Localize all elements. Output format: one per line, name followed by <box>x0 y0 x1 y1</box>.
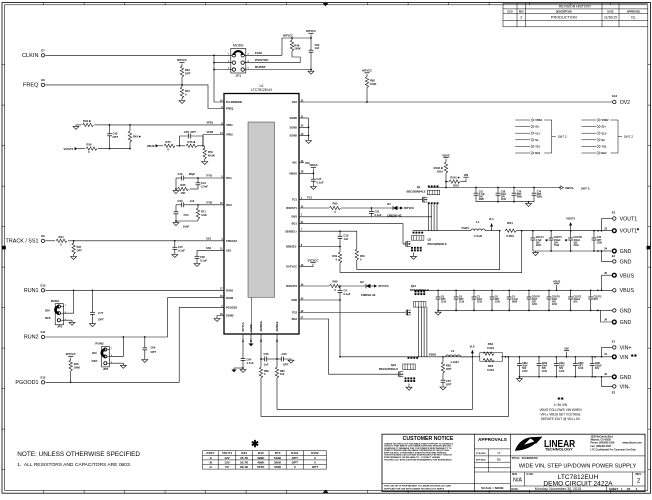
capacitor C44 <box>196 178 209 189</box>
svg-text:VSW1: VSW1 <box>462 226 470 230</box>
svg-text:INTVCC: INTVCC <box>404 206 414 210</box>
ground below JP2 <box>110 363 126 368</box>
address block text <box>591 435 643 451</box>
svg-text:0: 0 <box>167 147 169 151</box>
resistor R80 <box>259 367 269 378</box>
svg-text:357K: 357K <box>257 465 265 469</box>
ground below C54 <box>173 220 189 228</box>
wire VIN cap ground rail <box>519 376 595 378</box>
wire Q21 drain to VBUS rail <box>414 289 438 291</box>
resistor R101 2010 <box>446 175 466 187</box>
net label PS/SYNC wire <box>244 58 300 63</box>
svg-text:VBUS: VBUS <box>620 273 635 279</box>
capacitor COUT2 <box>588 290 602 310</box>
svg-text:0.003: 0.003 <box>506 234 514 238</box>
capacitor C38 <box>496 188 507 202</box>
svg-text:4.7uF: 4.7uF <box>479 193 486 196</box>
svg-text:R75: R75 <box>166 140 171 144</box>
svg-text:NOTE: UNLESS OTHERWISE SPECIFI: NOTE: UNLESS OTHERWISE SPECIFIED <box>17 451 140 458</box>
ground below C77 <box>90 324 96 327</box>
svg-text:PGND: PGND <box>250 324 253 331</box>
wire exposed pad to PGND <box>250 297 252 333</box>
svg-text:ASSY: ASSY <box>206 451 215 455</box>
svg-text:0: 0 <box>334 210 336 214</box>
wire TG2 to Q21 gate <box>299 312 405 314</box>
svg-text:PGOOD1: PGOOD1 <box>226 306 238 310</box>
svg-text:SS2: SS2 <box>226 249 231 253</box>
ground below Q2 <box>411 253 417 260</box>
svg-text:PLLIN/MODE: PLLIN/MODE <box>226 100 242 104</box>
svg-text:E3: E3 <box>612 211 616 215</box>
terminal E11 RUN2 <box>24 330 46 341</box>
svg-text:C77: C77 <box>98 311 103 315</box>
svg-text:R95: R95 <box>333 202 338 206</box>
svg-text:VFB1: VFB1 <box>226 123 233 127</box>
svg-text:LTC7812EUH: LTC7812EUH <box>251 88 272 92</box>
svg-text:2.2nF: 2.2nF <box>201 185 208 189</box>
svg-text:1210: 1210 <box>501 199 507 201</box>
svg-text:C52: C52 <box>200 255 205 259</box>
capacitor C77 OPT <box>90 290 104 323</box>
net flag VL1- <box>489 217 495 231</box>
svg-text:J6: J6 <box>604 317 608 321</box>
net flag VOUT1 left <box>63 147 77 151</box>
svg-text:RUN1: RUN1 <box>24 288 39 294</box>
svg-text:VOUT1: VOUT1 <box>63 147 73 151</box>
terminal J1 VIN <box>604 352 638 361</box>
svg-text:TITLE: SCHEMATIC: TITLE: SCHEMATIC <box>512 456 538 460</box>
svg-text:SHEET: SHEET <box>609 487 619 491</box>
ground below C17 <box>310 187 316 190</box>
svg-text:1206: 1206 <box>597 242 603 244</box>
svg-text:SHT 2: SHT 2 <box>624 135 633 139</box>
node VBUS rail junctions <box>445 187 535 189</box>
node PGOOD1 junction <box>70 381 72 383</box>
capacitor C52 <box>195 255 208 264</box>
svg-text:SENSE2-: SENSE2- <box>276 321 279 332</box>
svg-text:C63: C63 <box>282 352 287 356</box>
capacitor C4 <box>338 286 351 300</box>
svg-text:S1+: S1+ <box>535 126 540 129</box>
svg-text:OPT: OPT <box>185 72 191 76</box>
capacitor COUT1 <box>568 290 582 310</box>
svg-text:15K: 15K <box>181 191 186 195</box>
wire GND terminals branch <box>597 250 612 261</box>
sheet connector group VSW1..BG1 <box>515 119 567 156</box>
wire INTVCC pin stub <box>242 334 244 359</box>
terminal E3 VOUT1 <box>612 211 638 223</box>
svg-text:R43 ✱: R43 ✱ <box>133 134 142 138</box>
border center marker top <box>323 3 329 7</box>
svg-text:VSW1: VSW1 <box>535 119 543 122</box>
node C21 junction <box>371 207 373 209</box>
svg-text:68.1K: 68.1K <box>240 465 249 469</box>
svg-text:0: 0 <box>294 465 296 469</box>
capacitor C21 <box>369 208 382 217</box>
svg-text:TG2: TG2 <box>602 146 607 149</box>
wire ITH2 to U1 <box>198 201 224 205</box>
wire VBUS cap ground rail <box>476 201 534 203</box>
svg-text:VFB2: VFB2 <box>206 130 213 134</box>
svg-text:TRK/SS1: TRK/SS1 <box>226 239 238 243</box>
border zone ticks top <box>44 3 611 5</box>
ground below R72 <box>179 101 185 104</box>
terminal J6 GND <box>604 317 632 326</box>
svg-text:1. ALL RESISTORS AND CAPACITO: 1. ALL RESISTORS AND CAPACITORS ARE 0603… <box>17 462 131 468</box>
svg-text:-A: -A <box>209 456 213 460</box>
ground below C57 <box>440 387 446 390</box>
svg-text:www.linear.com: www.linear.com <box>623 441 643 445</box>
ground below R37 <box>71 257 77 260</box>
wire VFB1 to U1 <box>110 121 225 125</box>
terminal E5 VBUS <box>613 288 635 294</box>
sheet connector group VSW2..BG2 <box>582 119 634 156</box>
node R75 R76 junctions <box>179 145 204 147</box>
capacitor CIN2 <box>517 357 528 377</box>
wire FCM to INTVCC rail <box>282 38 311 55</box>
wire VOUT1 terminals branch <box>601 219 613 232</box>
svg-text:DL: DL <box>631 15 635 19</box>
svg-text:E2: E2 <box>612 391 616 395</box>
svg-text:SGND: SGND <box>289 134 297 138</box>
svg-text:50V: 50V <box>573 302 578 304</box>
ground solid at PGND <box>248 344 253 347</box>
svg-text:VBUS: VBUS <box>620 288 635 294</box>
wire SW1 rail <box>413 230 471 232</box>
terminal J3 VOUT1 <box>604 226 641 234</box>
svg-text:VL2-: VL2- <box>470 344 476 348</box>
node RUN2 junctions <box>122 336 145 338</box>
approvals box text <box>476 437 507 490</box>
wire L1 to RS1 <box>485 230 500 232</box>
svg-text:BG2: BG2 <box>602 152 608 155</box>
ground right of C63 <box>288 360 294 363</box>
svg-text:TECHNOLOGY: TECHNOLOGY <box>545 448 574 452</box>
svg-text:E4: E4 <box>612 254 616 258</box>
svg-text:R40: R40 <box>360 254 365 258</box>
svg-text:OFF: OFF <box>92 359 98 363</box>
terminal E1 VIN+ <box>612 340 632 352</box>
resistor R34 <box>45 235 73 247</box>
svg-text:0: 0 <box>60 242 62 246</box>
svg-text:WIDE VIN, STEP UP/DOWN POWER S: WIDE VIN, STEP UP/DOWN POWER SUPPLY <box>519 463 637 469</box>
capacitor COUT4 <box>531 231 545 251</box>
resistor RS3 0.004 <box>483 359 494 372</box>
svg-text:R71: R71 <box>201 210 206 214</box>
svg-text:DATE:: DATE: <box>512 488 519 491</box>
svg-text:100: 100 <box>280 372 285 376</box>
capacitor COUT11 <box>565 231 584 251</box>
svg-text:COUT4: COUT4 <box>536 236 545 239</box>
wire SW2 from U1 <box>299 300 340 357</box>
wire Q21 SW trace <box>419 307 427 357</box>
wire VBUS rail 2 <box>438 289 612 291</box>
svg-text:RUN2: RUN2 <box>24 335 39 341</box>
wire ITH1 to U1 <box>198 174 224 178</box>
capacitor CIN4 <box>554 357 565 377</box>
svg-text:VIN: VIN <box>620 355 629 361</box>
ground below VBUS caps 2 <box>435 310 441 316</box>
svg-text:JP1: JP1 <box>57 325 63 329</box>
node OV2 R92 junction <box>366 101 368 103</box>
svg-text:GND: GND <box>620 249 632 255</box>
transistor Q21 BSC027N04LS <box>406 284 429 316</box>
wire JP3 common to PLLIN/MODE pin <box>214 55 224 102</box>
terminal E12 PGOOD1 <box>15 375 45 386</box>
svg-text:2010: 2010 <box>453 184 459 188</box>
svg-text:EXTVCC: EXTVCC <box>286 265 297 269</box>
node VIN rail junctions <box>519 356 596 358</box>
resistor R96 <box>299 280 366 292</box>
capacitor C55 OPT <box>179 130 203 146</box>
node RUN1 junctions <box>73 289 94 291</box>
svg-text:499K: 499K <box>257 456 265 460</box>
node VBUS rail 2 junctions <box>437 289 599 291</box>
svg-text:E10: E10 <box>41 283 46 287</box>
resistor R33 <box>76 119 110 127</box>
svg-text:1nF: 1nF <box>315 46 320 50</box>
svg-text:J4: J4 <box>604 247 608 251</box>
wire PGOOD1 to U1 <box>45 308 224 383</box>
resistor RS2 0.004 <box>480 342 503 361</box>
svg-text:R37: R37 <box>77 245 82 249</box>
svg-text:BOOST1: BOOST1 <box>286 206 297 210</box>
svg-text:E8: E8 <box>41 78 45 82</box>
svg-text:BOOST2: BOOST2 <box>286 284 297 288</box>
svg-text:TG1: TG1 <box>307 195 313 199</box>
node SS1 junctions <box>73 240 176 242</box>
svg-text:✱: ✱ <box>565 238 569 242</box>
terminal E6 GND <box>613 308 632 314</box>
svg-text:1210: 1210 <box>559 371 565 373</box>
svg-text:THIS CIRCUIT IS PROPRIETARY TO: THIS CIRCUIT IS PROPRIETARY TO LINEAR TE… <box>384 485 451 488</box>
svg-text:1210: 1210 <box>578 368 584 370</box>
svg-text:VIN: VIN <box>564 346 568 350</box>
svg-text:J3: J3 <box>604 226 608 230</box>
wire VBUS cap ground rail 2 <box>438 310 598 312</box>
svg-text:RUN2: RUN2 <box>226 296 234 300</box>
resistor R79 <box>203 146 215 162</box>
svg-text:OV2: OV2 <box>292 100 298 104</box>
terminal E4 GND <box>612 254 632 265</box>
svg-text:Phone: (408)432-1900: Phone: (408)432-1900 <box>591 442 616 445</box>
svg-text:499K: 499K <box>257 460 265 464</box>
node RS1 right junction <box>521 230 523 232</box>
wire VIN terminal branch <box>601 347 613 357</box>
svg-text:1210: 1210 <box>532 304 538 306</box>
terminal E7 CLKIN <box>22 48 45 59</box>
svg-text:2010: 2010 <box>437 170 443 174</box>
svg-text:ON: ON <box>45 308 50 312</box>
svg-text:PCB DES.: PCB DES. <box>476 453 486 455</box>
svg-text:DESCRIPTION: DESCRIPTION <box>556 12 572 14</box>
resistor R43 <box>128 125 141 149</box>
capacitor C64 <box>241 358 254 369</box>
svg-text:1: 1 <box>111 348 113 350</box>
svg-text:C57: C57 <box>446 379 451 383</box>
svg-text:✱: ✱ <box>545 238 549 242</box>
svg-text:0.1uF: 0.1uF <box>375 213 382 217</box>
svg-text:0.1uF: 0.1uF <box>200 259 207 263</box>
svg-text:0: 0 <box>360 257 362 261</box>
svg-text:0: 0 <box>314 456 316 460</box>
svg-text:GND: GND <box>620 308 632 314</box>
border center marker right <box>647 246 651 250</box>
svg-text:100K: 100K <box>370 82 376 86</box>
svg-text:0.004: 0.004 <box>487 368 494 372</box>
svg-text:J2: J2 <box>604 372 608 376</box>
svg-text:1210: 1210 <box>542 371 548 373</box>
svg-text:CH.: CH. <box>497 459 501 461</box>
U1 reference labels <box>251 84 272 92</box>
capacitor C36 <box>592 231 603 251</box>
svg-text:Monday, November 30, 2015: Monday, November 30, 2015 <box>535 487 581 491</box>
svg-text:VL1-: VL1- <box>489 217 495 221</box>
svg-text:EXTVCC: EXTVCC <box>308 258 319 262</box>
node R101 junction <box>445 181 447 183</box>
inductor L1 <box>471 220 485 238</box>
svg-text:MODE: MODE <box>233 43 244 47</box>
svg-text:E13: E13 <box>612 94 617 98</box>
node SENSE2+ C56 junction <box>260 358 262 360</box>
jumper JP2 RUN2 <box>92 342 114 371</box>
svg-text:VBUS: VBUS <box>147 144 155 148</box>
svg-text:SENSE1-: SENSE1- <box>286 245 297 249</box>
svg-text:7343: 7343 <box>573 244 579 247</box>
svg-text:SIZE: SIZE <box>512 474 518 476</box>
svg-text:C15: C15 <box>344 234 349 238</box>
wire RS to VIN rail <box>501 356 612 358</box>
wire GND3 terminal branch <box>594 376 612 386</box>
svg-text:SGND: SGND <box>226 314 234 318</box>
ground below Q22 <box>406 384 412 391</box>
svg-text:OPT: OPT <box>283 363 289 367</box>
wire VOUT1 rail <box>522 230 612 232</box>
assembly table text <box>206 451 319 469</box>
terminal E9 TRACK/SS1 <box>6 234 46 245</box>
svg-text:L1: L1 <box>476 220 480 224</box>
svg-text:OPT: OPT <box>292 456 298 460</box>
ground below C60 <box>142 360 148 363</box>
wire SGND pins to ground bus <box>299 118 309 141</box>
svg-text:BSC093N04LS: BSC093N04LS <box>428 242 447 246</box>
svg-text:OPT: OPT <box>446 383 452 387</box>
power flag INTVCC above R92 <box>362 69 372 77</box>
wire SW1 from U1 <box>299 216 432 218</box>
svg-text:C60: C60 <box>151 345 156 349</box>
terminal E10 RUN1 <box>24 283 46 294</box>
svg-text:INTVCC: INTVCC <box>177 58 187 62</box>
svg-text:R102 ✱: R102 ✱ <box>434 166 444 170</box>
wire FREQ to U1 <box>45 85 224 109</box>
svg-text:3.6K: 3.6K <box>201 213 207 217</box>
svg-text:2: 2 <box>520 16 522 20</box>
U1 exposed pad <box>248 122 275 297</box>
svg-text:JP2: JP2 <box>103 367 109 371</box>
svg-text:C56: C56 <box>264 352 269 356</box>
capacitor C53 <box>176 199 198 207</box>
svg-text:R94: R94 <box>185 68 190 72</box>
capacitor COUT5 <box>545 231 562 251</box>
svg-text:VBIAS: VBIAS <box>309 163 317 167</box>
wire VBUS drain rail <box>428 187 446 189</box>
svg-text:BG1: BG1 <box>535 152 541 155</box>
wire PGND pin stub <box>250 334 252 344</box>
ground below C62 <box>308 69 314 75</box>
svg-text:0.1uF: 0.1uF <box>344 292 351 296</box>
svg-text:E11: E11 <box>41 330 46 334</box>
wire SENSE1+ from U1 <box>299 231 357 249</box>
U1 bottom pin names and numbers <box>242 320 279 342</box>
svg-text:✱: ✱ <box>637 228 641 232</box>
svg-text:SENSE1+: SENSE1+ <box>285 229 297 233</box>
capacitor C9 <box>454 290 465 310</box>
svg-text:VOUT1: VOUT1 <box>620 216 638 222</box>
svg-text:R81: R81 <box>280 369 285 373</box>
svg-text:-C: -C <box>209 465 213 469</box>
jumper JP1 RUN1 <box>45 299 67 329</box>
svg-text:365K: 365K <box>274 460 282 464</box>
svg-text:C43: C43 <box>178 172 183 176</box>
svg-text:INTVCC: INTVCC <box>362 69 372 73</box>
svg-text:OPT: OPT <box>77 248 83 252</box>
svg-text:0805: 0805 <box>479 199 485 201</box>
capacitor C49 OPT <box>107 125 118 149</box>
resistor R76 <box>186 140 203 148</box>
jumper JP3 MODE <box>228 43 249 78</box>
svg-text:OPT: OPT <box>292 460 298 464</box>
node VL2- junction <box>472 356 474 358</box>
svg-text:0805: 0805 <box>537 197 543 199</box>
svg-text:INTVCC: INTVCC <box>379 284 389 288</box>
svg-text:SHT 2: SHT 2 <box>581 186 590 190</box>
svg-text:1210: 1210 <box>477 302 483 304</box>
capacitor C57 OPT <box>441 379 452 387</box>
notes text <box>17 451 140 468</box>
svg-text:OF: OF <box>627 487 631 491</box>
resistor R62 OPT <box>441 357 452 380</box>
wire VFB2 to U1 <box>203 130 224 146</box>
svg-text:0.1uF: 0.1uF <box>317 181 324 185</box>
svg-text:0805: 0805 <box>512 302 518 304</box>
node SENSE1+ C15 junction <box>339 230 341 232</box>
svg-text:-B: -B <box>209 460 213 464</box>
svg-text:D2: D2 <box>360 280 364 284</box>
svg-text:J5: J5 <box>604 271 608 275</box>
svg-text:OPT: OPT <box>113 135 119 139</box>
capacitor C60 OPT <box>142 337 156 360</box>
svg-text:R101 ✱: R101 ✱ <box>450 175 460 179</box>
node ITH2 junction <box>197 204 199 206</box>
power flag INTVCC above R46 <box>66 352 76 360</box>
ground below C52 <box>194 264 200 267</box>
wire SGND pin to ground <box>217 316 224 319</box>
svg-text:ON: ON <box>92 351 97 355</box>
svg-text:PS/SYNC: PS/SYNC <box>255 58 269 62</box>
svg-text:VBUS: VBUS <box>442 153 450 157</box>
resistor R35 <box>176 178 198 195</box>
svg-text:BG1: BG1 <box>292 222 298 226</box>
svg-text:0: 0 <box>336 258 338 262</box>
svg-text:PRODUCTION: PRODUCTION <box>551 15 577 19</box>
wire RUN1 to JP1 pin 2 <box>64 290 74 313</box>
resistor R39 <box>332 247 341 273</box>
svg-text:VIN: VIN <box>464 173 469 177</box>
svg-text:N/C: N/C <box>293 161 298 165</box>
svg-text:SGND: SGND <box>289 116 297 120</box>
svg-text:R72: R72 <box>185 89 190 93</box>
svg-text:R101: R101 <box>291 451 299 455</box>
